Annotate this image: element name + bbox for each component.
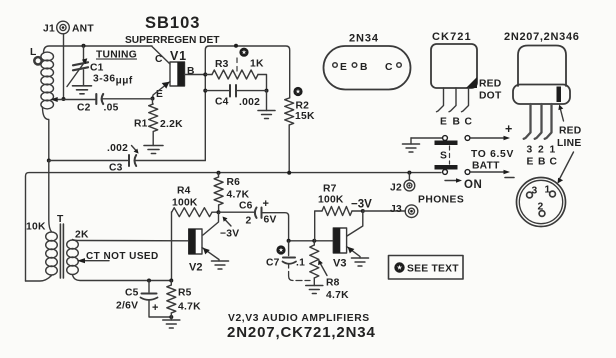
svg-text:4.7K: 4.7K: [227, 190, 250, 201]
transistor V2: [189, 229, 203, 274]
resistor R4 100K: [172, 186, 219, 281]
svg-text:.002: .002: [107, 143, 128, 154]
svg-text:2N207,CK721,2N34: 2N207,CK721,2N34: [227, 324, 376, 341]
label ON with arrow: [445, 180, 458, 182]
node V2 collector junction: [217, 210, 221, 214]
svg-text:3: 3: [532, 186, 538, 197]
svg-text:ANT: ANT: [72, 24, 94, 35]
svg-text:J1: J1: [43, 24, 55, 35]
svg-text:E: E: [340, 62, 347, 73]
svg-text:L: L: [30, 47, 37, 58]
svg-text:ON: ON: [464, 179, 482, 191]
svg-text:100K: 100K: [172, 198, 198, 209]
transformer center tap arrow CT NOT USED: [80, 260, 109, 262]
svg-text:+: +: [263, 198, 269, 210]
svg-text:2N34: 2N34: [349, 33, 379, 45]
resistor R8 4.7K: [306, 241, 349, 301]
svg-text:2K: 2K: [75, 230, 89, 241]
svg-text:1K: 1K: [250, 59, 264, 70]
svg-text:2: 2: [538, 145, 544, 156]
svg-text:2: 2: [246, 216, 252, 227]
svg-text:C3: C3: [109, 163, 123, 174]
node R7/R8 base junction: [312, 239, 316, 243]
svg-text:E: E: [527, 157, 534, 168]
wire V1 base: [185, 74, 206, 76]
svg-text:RED: RED: [559, 126, 582, 137]
node V3 collector junction: [361, 209, 365, 213]
label -3V with arrow (V2): [220, 217, 239, 240]
svg-text:B: B: [538, 157, 546, 168]
svg-text:S: S: [440, 151, 447, 162]
svg-text:J3: J3: [390, 204, 402, 215]
svg-text:R7: R7: [323, 184, 337, 195]
svg-text:V2: V2: [189, 262, 202, 274]
wire to J3: [363, 210, 405, 212]
svg-text:C: C: [550, 157, 558, 168]
resistor R1 2.2K: [134, 99, 183, 154]
wire V1 collector: [152, 47, 170, 65]
svg-text:R8: R8: [326, 278, 340, 289]
svg-text:4.7K: 4.7K: [326, 290, 349, 301]
node R6 top: [217, 171, 221, 175]
svg-text:R2: R2: [296, 101, 310, 112]
legend SEE TEXT box: [389, 256, 464, 280]
svg-text:.05: .05: [104, 103, 119, 114]
coil L: [30, 47, 54, 109]
svg-text:RED: RED: [479, 79, 502, 90]
jack J2: [390, 173, 415, 194]
svg-text:TO 6.5V: TO 6.5V: [471, 149, 514, 160]
transformer T: [26, 161, 189, 281]
svg-text:+: +: [505, 122, 512, 136]
marker star on frame (R3 see-text): [234, 44, 249, 71]
capacitor C2 .05 tap line: [51, 94, 155, 114]
capacitor C4 .002: [203, 85, 268, 108]
ground below C4: [266, 91, 268, 111]
wire V2 collector: [203, 212, 219, 235]
capacitor C3 .002: [47, 143, 206, 174]
svg-text:−3V: −3V: [351, 199, 372, 211]
capacitor C7 .1 (optional): [266, 241, 310, 281]
switch S: [403, 136, 470, 175]
svg-text:LINE: LINE: [557, 138, 581, 149]
node C7/V3 base junction: [287, 239, 291, 243]
svg-text:BATT: BATT: [472, 161, 500, 172]
svg-text:4.7K: 4.7K: [178, 302, 201, 313]
svg-text:E: E: [440, 117, 447, 128]
svg-text:CK721: CK721: [432, 31, 472, 43]
svg-text:B: B: [453, 117, 461, 128]
node J2: [407, 171, 411, 175]
svg-text:R4: R4: [177, 186, 191, 197]
capacitor C6 2/6V: [219, 198, 289, 241]
svg-text:10K: 10K: [26, 222, 46, 233]
resistor R6 4.7K: [214, 173, 249, 212]
svg-text:B: B: [360, 62, 368, 73]
wire tank top bus: [44, 46, 153, 53]
resistor R7 100K: [315, 184, 363, 241]
svg-text:DOT: DOT: [479, 91, 502, 102]
case outline socket bottom view: [517, 152, 574, 227]
node R2 bottom: [287, 171, 291, 175]
transistor V1: [155, 49, 195, 100]
capacitor C5 2/6V: [116, 279, 171, 318]
jack J3: [390, 204, 418, 218]
svg-text:R3: R3: [215, 59, 229, 70]
svg-text:C6: C6: [239, 201, 253, 212]
svg-text:PHONES: PHONES: [418, 195, 464, 206]
svg-text:R6: R6: [227, 177, 241, 188]
capacitor C1 variable TUNING: [67, 44, 137, 94]
battery + lead: [471, 137, 506, 139]
svg-text:.002: .002: [239, 97, 260, 108]
svg-text:V2,V3 AUDIO AMPLIFIERS: V2,V3 AUDIO AMPLIFIERS: [228, 313, 370, 324]
resistor R2 15K: [285, 87, 315, 173]
svg-text:SUPERREGEN DET: SUPERREGEN DET: [125, 35, 220, 46]
svg-text:C1: C1: [90, 63, 104, 74]
svg-text:SEE TEXT: SEE TEXT: [407, 264, 459, 275]
wire V1 emitter with arrow: [153, 82, 171, 99]
wire V2 emitter with arrow to ground: [202, 248, 219, 262]
svg-text:CT NOT USED: CT NOT USED: [86, 251, 159, 262]
svg-text:15K: 15K: [295, 111, 315, 122]
resistor R3 1K: [205, 59, 266, 91]
svg-text:1: 1: [545, 185, 551, 196]
svg-text:C5: C5: [125, 288, 139, 299]
jack J1: [43, 21, 94, 34]
svg-text:C2: C2: [77, 103, 91, 114]
svg-text:6V: 6V: [264, 215, 277, 226]
case outline 2N207,2N346: [504, 31, 582, 168]
svg-text:J2: J2: [390, 183, 402, 194]
wire J1 to tap line: [63, 34, 65, 99]
svg-text:2/6V: 2/6V: [116, 301, 138, 312]
svg-text:C4: C4: [215, 97, 229, 108]
wire coil bottom to C3 junction rail: [43, 107, 49, 161]
svg-text:TUNING: TUNING: [96, 50, 137, 61]
wire base frame top: [205, 46, 289, 161]
svg-text:+: +: [152, 302, 158, 314]
svg-text:3: 3: [527, 145, 533, 156]
case outline CK721: [431, 31, 502, 128]
battery - lead: [471, 171, 506, 173]
svg-text:1: 1: [550, 145, 556, 156]
wire V3 base line: [289, 240, 333, 242]
svg-text:C7: C7: [266, 258, 280, 269]
svg-text:−3V: −3V: [220, 229, 239, 240]
svg-text:V3: V3: [333, 258, 346, 270]
svg-text:C: C: [385, 62, 393, 73]
svg-text:2N207,2N346: 2N207,2N346: [504, 31, 580, 43]
svg-text:C: C: [465, 117, 473, 128]
case outline 2N34: [324, 33, 411, 90]
wire lower supply bus: [26, 173, 442, 281]
svg-text:B: B: [187, 66, 195, 77]
svg-text:R5: R5: [178, 288, 192, 299]
node base junction: [203, 73, 207, 77]
transistor V3: [333, 228, 347, 270]
svg-text:R1: R1: [134, 119, 148, 130]
svg-text:V1: V1: [170, 49, 187, 63]
wire V3 collector: [347, 211, 363, 236]
svg-text:SB103: SB103: [145, 14, 200, 32]
svg-text:2.2K: 2.2K: [160, 119, 183, 130]
wire V3 emitter with arrow to ground: [347, 247, 360, 259]
svg-text:.1: .1: [296, 258, 305, 269]
resistor R5 4.7K: [163, 279, 201, 329]
svg-text:100K: 100K: [318, 195, 344, 206]
